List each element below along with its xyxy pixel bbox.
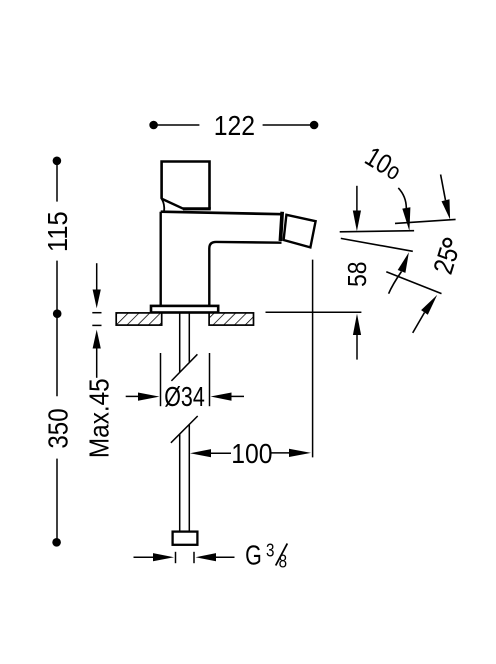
svg-text:115: 115 [42,211,73,252]
svg-text:100: 100 [231,438,272,470]
svg-text:3: 3 [266,540,274,561]
svg-text:Max.45: Max.45 [83,378,115,458]
svg-text:G: G [245,541,262,571]
svg-text:350: 350 [44,408,74,448]
svg-text:8: 8 [279,551,287,572]
svg-text:Ø34: Ø34 [164,382,205,412]
svg-text:58: 58 [344,261,373,286]
svg-text:122: 122 [214,110,255,142]
